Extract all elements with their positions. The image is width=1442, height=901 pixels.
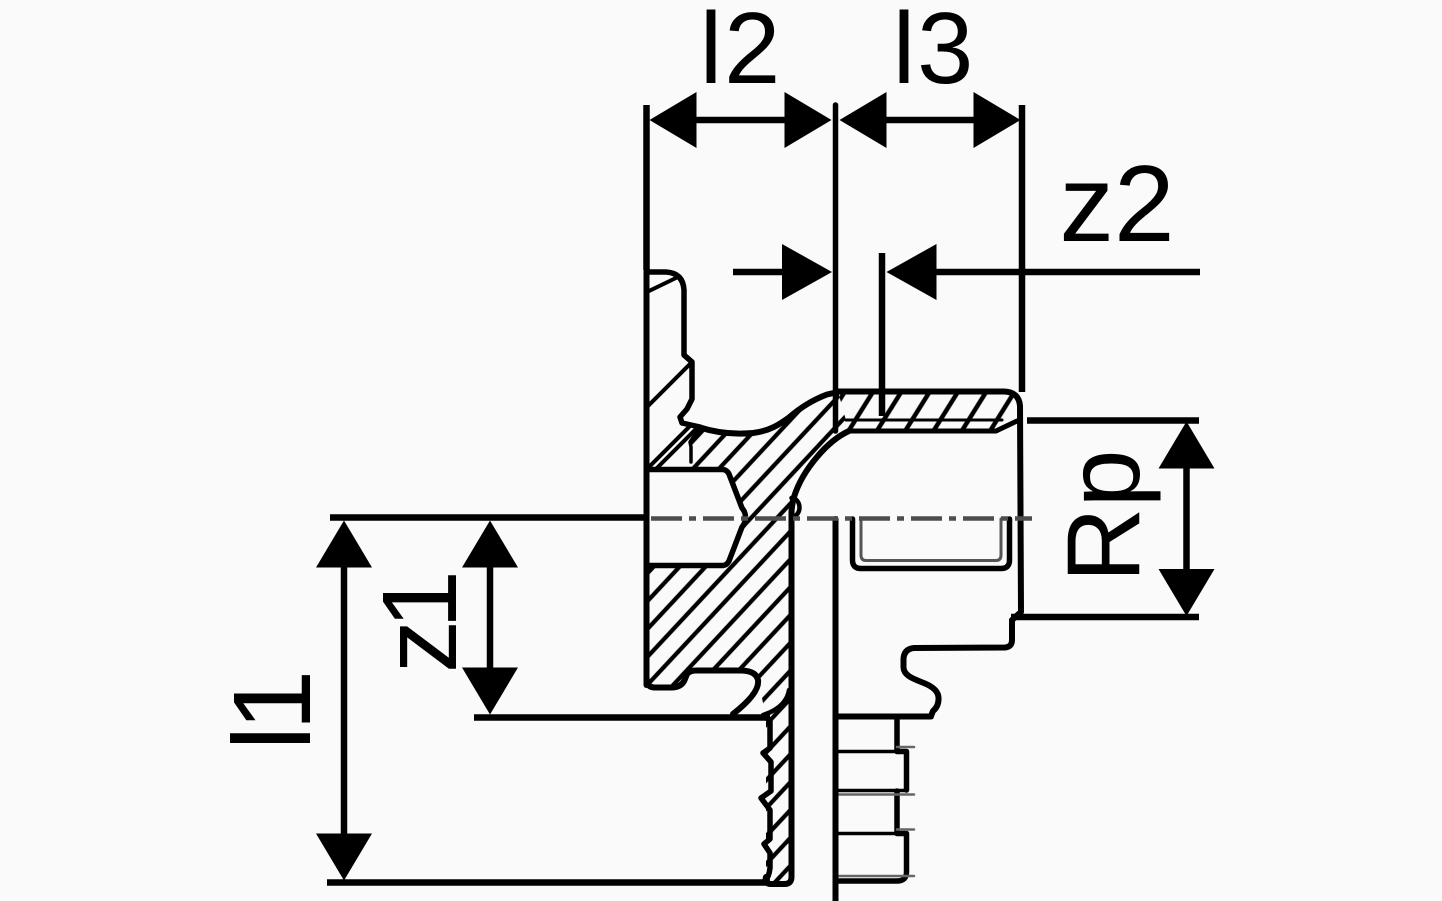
svg-text:Rp: Rp — [1046, 450, 1162, 583]
svg-text:l2: l2 — [700, 0, 783, 105]
svg-text:l1: l1 — [211, 675, 334, 751]
svg-text:z2: z2 — [1059, 143, 1174, 265]
svg-text:l3: l3 — [893, 0, 976, 105]
svg-text:z1: z1 — [361, 575, 479, 673]
